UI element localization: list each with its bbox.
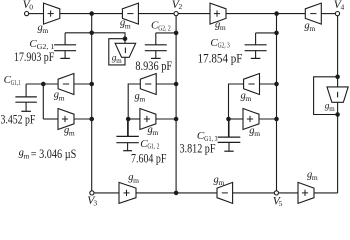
svg-text:m: m	[42, 26, 48, 35]
svg-text:G1,1: G1,1	[11, 78, 21, 87]
svg-text:m: m	[309, 24, 315, 33]
svg-text:G2, 2: G2, 2	[158, 24, 171, 33]
svg-text:= 3.046 µS: = 3.046 µS	[31, 146, 77, 161]
svg-text:m: m	[133, 176, 139, 185]
svg-text:m: m	[24, 151, 30, 160]
svg-text:m: m	[59, 93, 65, 102]
svg-text:7.604 pF: 7.604 pF	[131, 151, 166, 166]
svg-text:m: m	[220, 23, 226, 32]
svg-text:m: m	[329, 105, 335, 113]
svg-text:m: m	[254, 129, 260, 138]
svg-text:4: 4	[341, 2, 345, 11]
svg-text:3.812 pF: 3.812 pF	[180, 140, 216, 155]
svg-text:17.854 pF: 17.854 pF	[198, 50, 243, 65]
svg-text:G2, 3: G2, 3	[218, 41, 230, 50]
svg-text:m: m	[125, 21, 131, 30]
svg-text:m: m	[245, 94, 251, 103]
svg-text:G1, 2: G1, 2	[147, 142, 159, 151]
svg-text:m: m	[152, 128, 158, 137]
svg-text:3: 3	[93, 199, 97, 208]
svg-text:8.936 pF: 8.936 pF	[135, 58, 172, 73]
svg-text:2: 2	[179, 2, 183, 11]
svg-text:0: 0	[29, 3, 33, 12]
svg-text:m: m	[69, 128, 75, 137]
svg-text:m: m	[312, 173, 318, 182]
svg-text:m: m	[218, 178, 224, 187]
svg-text:3.452 pF: 3.452 pF	[1, 111, 36, 126]
svg-text:m: m	[116, 57, 122, 65]
svg-text:17.903 pF: 17.903 pF	[14, 49, 54, 64]
svg-text:m: m	[139, 95, 145, 104]
svg-text:5: 5	[279, 199, 283, 208]
